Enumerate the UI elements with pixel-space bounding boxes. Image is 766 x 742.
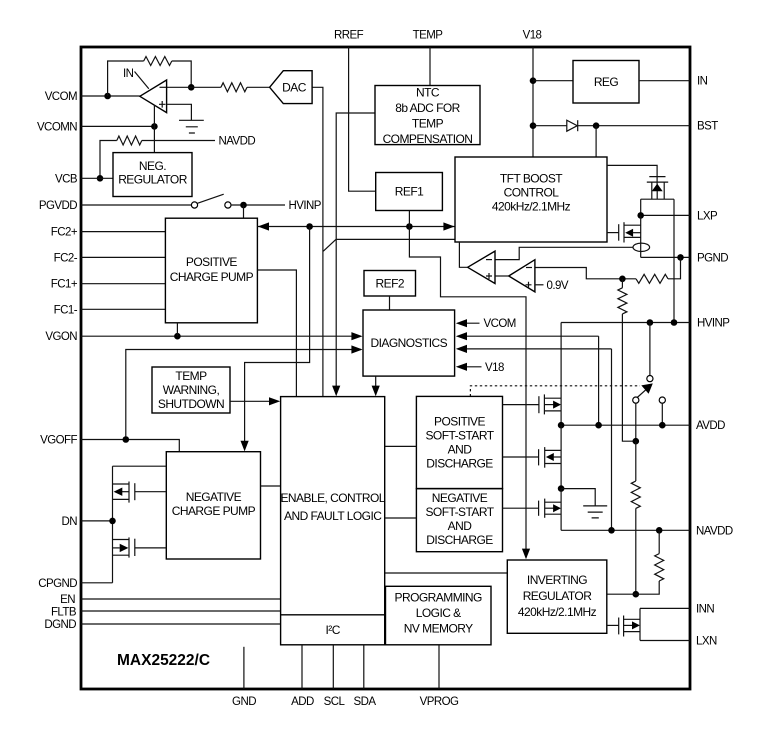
transistor Q3 (boost high-side FET, vertical) <box>641 177 674 200</box>
wire VCOM label into diagnostics <box>458 322 480 324</box>
wire inverting FET rail <box>639 608 641 640</box>
node junction HVINP / boost output <box>671 319 678 326</box>
svg-text:PROGRAMMING: PROGRAMMING <box>395 591 483 605</box>
svg-text:REF2: REF2 <box>376 277 405 291</box>
svg-text:CHARGE PUMP: CHARGE PUMP <box>172 504 256 518</box>
svg-text:INVERTING: INVERTING <box>527 573 587 587</box>
svg-text:PGND: PGND <box>697 252 728 264</box>
op-amp plus sign <box>159 101 166 108</box>
resistor feedback (op-amp) <box>144 57 172 66</box>
wire NAVDD branch left <box>100 141 117 179</box>
svg-text:CPGND: CPGND <box>38 578 77 590</box>
block NEG. REGULATOR <box>113 153 192 197</box>
wire PGND node down to sense resistor <box>668 257 681 278</box>
current sense ellipse <box>633 243 650 251</box>
wire SCL stub <box>332 645 334 689</box>
wire AVDD sense into diagnostics <box>458 335 599 337</box>
svg-text:VCOMN: VCOMN <box>37 121 77 133</box>
svg-text:420kHz/2.1MHz: 420kHz/2.1MHz <box>492 200 571 214</box>
svg-text:PGVDD: PGVDD <box>39 200 77 212</box>
svg-text:FC1+: FC1+ <box>51 279 78 291</box>
block ENABLE CONTROL AND FAULT LOGIC <box>281 397 385 645</box>
svg-text:LOGIC &: LOGIC & <box>416 606 461 620</box>
svg-text:CONTROL: CONTROL <box>504 186 560 200</box>
wire op-amp inverting input line <box>167 86 221 88</box>
resistor divider upper (HVINP sense) <box>618 288 627 314</box>
node junction AVDD / FET rail <box>558 422 565 429</box>
block DIAGNOSTICS <box>363 310 455 376</box>
svg-text:COMPENSATION: COMPENSATION <box>383 132 473 146</box>
node junction V18 / BST diode <box>530 122 537 129</box>
svg-text:IN: IN <box>697 76 708 88</box>
wire current sense to comparator A minus <box>495 247 633 259</box>
svg-text:VCOM: VCOM <box>45 91 77 103</box>
arrowhead into charge pump right edge <box>258 222 269 230</box>
wire V18 to REG input <box>533 80 573 82</box>
wire TFT boost to high-side FET drain <box>607 165 657 185</box>
wire V18 label into diagnostics <box>458 366 482 368</box>
svg-text:VGON: VGON <box>45 331 77 343</box>
node junction LXP <box>637 212 644 219</box>
svg-text:ADD: ADD <box>291 696 314 708</box>
node junction HVINP feed / REF1 <box>406 223 413 230</box>
wire switch right contact down to AVDD <box>661 403 663 425</box>
node junction NAVDD / feedback resistor <box>656 527 663 534</box>
wire divider chain down through NAVDD region <box>635 441 637 481</box>
wire logic to positive soft-start <box>385 445 417 447</box>
svg-text:CHARGE PUMP: CHARGE PUMP <box>170 270 254 284</box>
svg-text:DAC: DAC <box>282 80 307 94</box>
wire logic to inverting regulator <box>385 572 508 574</box>
arrowhead into TFT boost left edge <box>443 222 454 230</box>
wire switch node down to charge pump top <box>243 205 245 218</box>
resistor DAC to inverting input <box>221 83 247 92</box>
wire comparator A plus to comparator B output <box>495 275 509 277</box>
svg-text:DIAGNOSTICS: DIAGNOSTICS <box>370 336 447 350</box>
wire HVINP feed line (charge pump to TFT boost) <box>257 226 455 228</box>
svg-text:BST: BST <box>697 121 718 133</box>
transistor Q2 (NCP lower FET) <box>113 537 167 557</box>
op-amp U1 (VCOM buffer, pointing left) <box>140 80 167 113</box>
svg-text:VCB: VCB <box>55 173 78 185</box>
block NEGATIVE CHARGE PUMP <box>166 452 260 559</box>
block REG <box>573 61 639 104</box>
svg-text:I²C: I²C <box>326 623 341 637</box>
svg-text:HVINP: HVINP <box>289 200 322 212</box>
wire op-amp bottom edge down to NEG. REGULATOR <box>153 105 155 152</box>
wire FC1+ pin line <box>81 283 165 285</box>
arrowhead into inverting regulator top <box>522 549 530 560</box>
wire AVDD up branch <box>598 336 600 425</box>
svg-text:NV MEMORY: NV MEMORY <box>404 622 473 636</box>
svg-text:INN: INN <box>696 603 714 615</box>
svg-text:AVDD: AVDD <box>696 420 725 432</box>
wire NAVDD sense into diagnostics <box>458 348 612 350</box>
svg-text:NEG.: NEG. <box>139 159 166 173</box>
svg-text:SOFT-START: SOFT-START <box>425 505 494 519</box>
svg-text:RREF: RREF <box>334 30 364 42</box>
svg-text:SHUTDOWN: SHUTDOWN <box>158 397 224 411</box>
node junction V18 / REG <box>530 77 537 84</box>
dotted control line to soft-start <box>470 386 640 397</box>
wire FLTB pin line <box>81 610 281 612</box>
wire ground node stub <box>561 489 595 506</box>
wire feedback right to inverting input <box>172 61 191 87</box>
wire TFT boost to jog line <box>336 238 455 240</box>
wire divider node down resistor chain <box>621 279 623 288</box>
svg-text:8b ADC FOR: 8b ADC FOR <box>395 101 460 115</box>
wire high-side FET right leg down to HVINP <box>673 199 675 322</box>
wire VPROG stub <box>438 645 440 689</box>
wire VCOMN pin line <box>81 125 154 127</box>
svg-text:V18: V18 <box>523 30 542 42</box>
wire switch left contact down to divider jog <box>635 403 637 441</box>
wire HVINP pin line <box>561 322 690 324</box>
svg-text:VGOFF: VGOFF <box>40 435 77 447</box>
svg-text:WARNING,: WARNING, <box>163 383 220 397</box>
wire NAVDD line <box>561 529 690 531</box>
node junction on VCB line <box>97 175 104 182</box>
DAC block <box>270 71 313 104</box>
arrowhead temp warning into logic left <box>269 397 280 405</box>
wire BST line (cathode side to pin) <box>578 125 690 127</box>
svg-text:NAVDD: NAVDD <box>219 136 256 148</box>
block REF2 <box>364 271 416 297</box>
block REF1 <box>376 173 443 211</box>
switch S2 right contact <box>659 397 665 403</box>
arrowhead diagnostics into logic top <box>372 386 380 397</box>
svg-text:FLTB: FLTB <box>51 607 77 619</box>
wire resistor to DAC tip <box>247 86 270 88</box>
svg-text:TEMP: TEMP <box>175 369 207 383</box>
block PROGRAMMING LOGIC & NV MEMORY <box>386 586 492 645</box>
ground symbol (op-amp plus input) <box>179 120 204 133</box>
wire INN pin line <box>640 607 690 609</box>
wire divider resistor to inverting reg output <box>635 508 637 594</box>
wire FC2+ pin line <box>81 231 165 233</box>
wire charge pump bottom stub <box>176 323 178 336</box>
wire FET rail ground node to NAVDD <box>560 489 562 531</box>
wire PGVDD pin to switch <box>81 204 191 206</box>
wire VGOFF branch to diagnostics <box>126 350 361 440</box>
wire PGND line <box>641 256 690 258</box>
arrowhead VGOFF net into diagnostics left <box>351 345 362 353</box>
svg-text:DISCHARGE: DISCHARGE <box>426 457 493 471</box>
wire NTC output down to logic <box>336 113 375 388</box>
block POSITIVE CHARGE PUMP <box>165 218 257 323</box>
wire REG output to IN pin <box>639 80 690 82</box>
I2C section divider <box>281 614 385 616</box>
node junction HVINP / switch <box>647 319 654 326</box>
ground symbol (soft-start) <box>583 506 607 518</box>
switch S2 common contact <box>647 376 653 382</box>
svg-text:TFT BOOST: TFT BOOST <box>500 172 563 186</box>
wire positive charge pump output down to logic <box>257 270 296 397</box>
transistor Q4 (boost low-side FET) <box>607 222 641 242</box>
svg-text:REGULATOR: REGULATOR <box>523 589 593 603</box>
wire NAVDD up branch <box>611 349 613 530</box>
wire resistor to NAVDD net label <box>142 140 215 142</box>
transistor Q5 (positive supply FET) <box>503 394 562 414</box>
svg-text:REGULATOR: REGULATOR <box>118 173 188 187</box>
switch S1 (PGVDD) left contact <box>191 202 197 208</box>
resistor NAVDD feedback <box>655 554 664 581</box>
svg-text:POSITIVE: POSITIVE <box>186 255 237 269</box>
wire negative charge pump output to logic <box>261 485 281 487</box>
wire NAVDD node down to feedback resistor <box>658 530 660 553</box>
wire NCP FET rail <box>112 466 114 583</box>
wire diagonal jog to DAC net <box>323 239 336 251</box>
wire feedback resistor to inverting reg output <box>607 581 659 594</box>
wire diagnostics down to logic <box>375 376 377 394</box>
node junction VGON / charge pump bottom <box>174 333 181 340</box>
wire VCB pin line <box>81 177 113 179</box>
wire GND stub <box>243 647 245 689</box>
wire high-side FET left leg to LXP node <box>640 199 642 215</box>
transistor Q6 (AVDD discharge FET) <box>503 447 562 468</box>
switch S1 right contact <box>225 202 231 208</box>
node junction BST / TFT boost <box>593 122 600 129</box>
wire BST node down to TFT boost top <box>595 126 597 157</box>
svg-text:EN: EN <box>60 594 75 606</box>
wire comparator A output up to TFT boost <box>459 242 467 267</box>
chip outer border <box>81 47 690 689</box>
svg-text:VCOM: VCOM <box>484 318 516 330</box>
wire AVDD line <box>561 424 690 426</box>
wire VGON pin to diagnostics <box>81 335 361 337</box>
svg-text:0.9V: 0.9V <box>547 280 569 292</box>
wire FC2- pin line <box>81 256 165 258</box>
svg-text:DGND: DGND <box>44 619 76 631</box>
wire temp warning to logic <box>230 400 279 402</box>
svg-text:SCL: SCL <box>324 696 346 708</box>
switch S2 left contact <box>633 397 639 403</box>
wire FC1- pin line <box>81 308 165 310</box>
svg-text:AND FAULT LOGIC: AND FAULT LOGIC <box>284 509 382 523</box>
svg-text:GND: GND <box>232 696 256 708</box>
svg-text:SOFT-START: SOFT-START <box>425 429 494 443</box>
svg-text:VPROG: VPROG <box>420 696 459 708</box>
arrowhead VGON into diagnostics left <box>351 332 362 340</box>
transistor Q1 (NCP upper FET) <box>113 482 167 503</box>
svg-text:AND: AND <box>448 519 473 533</box>
node junction switch/HVINP <box>240 202 247 209</box>
svg-text:DISCHARGE: DISCHARGE <box>426 533 493 547</box>
svg-text:FC1-: FC1- <box>54 304 78 316</box>
svg-text:420kHz/2.1MHz: 420kHz/2.1MHz <box>518 605 597 619</box>
node junction VCOMN / regulator <box>151 123 158 130</box>
wire feedback loop left/top <box>108 61 144 96</box>
block POSITIVE SOFT-START AND DISCHARGE <box>416 396 502 488</box>
wire REF2 to diagnostics <box>389 296 391 310</box>
wire op-amp non-inverting input to ground <box>167 104 192 120</box>
svg-text:NAVDD: NAVDD <box>696 525 733 537</box>
svg-text:POSITIVE: POSITIVE <box>434 415 485 429</box>
arrowhead into negative charge pump top <box>241 441 249 452</box>
node junction ground node <box>558 485 565 492</box>
resistor sense (PGND) <box>636 274 668 283</box>
svg-text:TEMP: TEMP <box>413 30 444 42</box>
wire comparator B plus stub to 0.9V <box>535 284 544 286</box>
wire HVINP down to FET rail <box>560 323 562 426</box>
node junction divider jog <box>633 438 640 445</box>
wire LXP node down through boost FET <box>640 215 642 257</box>
node junction HVINP feed / NCP branch <box>306 223 313 230</box>
svg-text:LXP: LXP <box>697 210 718 222</box>
wire FET rail AVDD to ground node <box>560 425 562 488</box>
svg-text:TEMP: TEMP <box>412 117 444 131</box>
wire TEMP pin down to NTC ADC <box>429 47 431 86</box>
block TFT BOOST CONTROL <box>455 157 607 242</box>
block NEGATIVE SOFT-START AND DISCHARGE <box>416 489 502 552</box>
transistor Q7 (NAVDD discharge FET) <box>503 499 562 518</box>
node junction inverting reg output / divider <box>633 591 640 598</box>
node junction NAVDD / diagnostics branch <box>608 527 615 534</box>
wire EN pin line <box>81 598 281 600</box>
resistor divider lower <box>631 481 640 508</box>
switch S2 blade with arrowhead <box>637 390 646 398</box>
svg-text:REG: REG <box>594 75 619 89</box>
svg-text:NEGATIVE: NEGATIVE <box>186 490 242 504</box>
wire ADD stub <box>301 645 303 689</box>
wire sense resistor to divider node <box>535 268 636 279</box>
wire divider resistor down to AVDD jog <box>622 314 635 441</box>
wire REF1 output chain down to inverting regulator <box>409 211 526 557</box>
svg-text:ENABLE, CONTROL: ENABLE, CONTROL <box>280 491 385 505</box>
switch S2 common from HVINP <box>649 323 651 376</box>
node junction AVDD / diagnostics branch <box>595 422 602 429</box>
svg-text:FC2+: FC2+ <box>51 227 78 239</box>
svg-text:IN: IN <box>123 68 134 80</box>
svg-text:NEGATIVE: NEGATIVE <box>432 491 488 505</box>
svg-text:LXN: LXN <box>696 636 717 648</box>
wire VCOM pin to op-amp output <box>81 95 140 97</box>
svg-text:V18: V18 <box>485 362 504 374</box>
node junction AVDD / switch <box>659 422 666 429</box>
svg-text:HVINP: HVINP <box>697 318 730 330</box>
wire DN pin line <box>81 520 113 522</box>
node junction feedback / inverting input <box>188 84 195 91</box>
wire RREF pin down to REF1 <box>349 47 376 191</box>
svg-text:DN: DN <box>61 516 77 528</box>
comparator B (0.9V reference) <box>509 260 535 292</box>
svg-text:AND: AND <box>448 443 473 457</box>
wire CPGND pin line <box>81 582 113 584</box>
wire DGND pin line <box>81 623 281 625</box>
svg-text:MAX25222/C: MAX25222/C <box>117 652 210 669</box>
diode D1 (BST) <box>567 120 578 131</box>
wire DAC output down to logic <box>312 87 323 396</box>
resistor NAVDD branch <box>117 136 142 145</box>
wire switch to HVINP net label <box>231 204 285 206</box>
wire NCP FET rail top to box <box>113 465 167 467</box>
block TEMP WARNING SHUTDOWN <box>152 367 230 413</box>
arrowhead NTC net into logic top <box>332 386 340 397</box>
wire HVINP branch down-left to negative charge pump <box>245 227 310 450</box>
switch S1 blade <box>197 194 223 203</box>
node junction divider top <box>619 276 626 283</box>
svg-text:FC2-: FC2- <box>54 252 78 264</box>
node junction on VCOM line <box>104 93 111 100</box>
op-amp minus sign <box>160 86 167 88</box>
svg-text:NTC: NTC <box>416 86 440 100</box>
wire V18 pin down to TFT boost <box>532 47 534 157</box>
block INVERTING REGULATOR <box>507 560 607 633</box>
wire logic to negative soft-start <box>385 517 417 519</box>
wire VGOFF pin line <box>81 440 179 452</box>
svg-text:SDA: SDA <box>354 696 377 708</box>
node junction DN / FET rail <box>109 518 116 525</box>
node junction PGND / sense resistor <box>677 254 684 261</box>
svg-text:REF1: REF1 <box>395 185 424 199</box>
transistor Q8 (inverting regulator FET) <box>607 616 640 637</box>
node junction on VGOFF line <box>123 436 130 443</box>
wire BST line (anode side) <box>533 125 567 127</box>
comparator A (current sense) <box>468 251 495 283</box>
wire LXN pin line <box>640 640 690 642</box>
block NTC 8b ADC <box>375 86 480 145</box>
wire SDA stub <box>363 645 365 689</box>
wire LXP pin line <box>641 214 690 216</box>
